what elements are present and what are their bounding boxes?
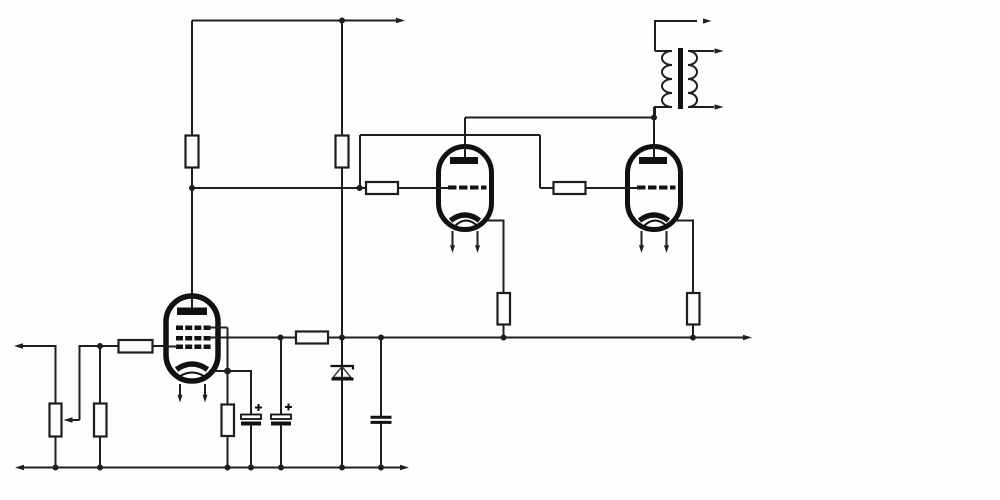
V2 grid stub [436, 187, 449, 189]
node: ground grid-leak junction [97, 465, 103, 471]
wire: R6 to bus [692, 323, 694, 338]
pentode V1 [163, 296, 228, 403]
V3 grid dashes [637, 186, 676, 190]
V3 grid stub [625, 187, 638, 189]
node: bus R6 junction [690, 335, 696, 341]
V2 grid dashes [448, 186, 487, 190]
resistor R10 grid stopper [119, 340, 153, 353]
wire: cathode V3 to R6 [670, 221, 693, 297]
V1 plate bar [177, 308, 207, 316]
T1 secondary lead bottom [688, 106, 714, 108]
wire: C3 riser to bus [380, 338, 382, 417]
wire: pot wiper riser to grid net [80, 346, 121, 420]
node: V1 screen-cathode junction [224, 368, 231, 375]
node: ground zener junction [339, 465, 345, 471]
resistor R2 [336, 136, 349, 168]
V1 heater arrows [179, 384, 181, 397]
arrow: B+ rail right [396, 18, 405, 23]
node: top rail junction [339, 18, 345, 24]
V3 cathode arc [640, 215, 669, 221]
node: bus zener junction [339, 335, 345, 341]
V2 cathode arc [451, 215, 480, 221]
resistor R5 [498, 293, 511, 325]
wire: grid stopper to V1 [151, 345, 168, 347]
V2 plate lead [464, 146, 466, 161]
V3 plate bar [639, 157, 667, 164]
V1 bus stub [207, 337, 222, 339]
wire: C2 to ground [280, 426, 282, 468]
node: bus C3 junction [378, 335, 384, 341]
T1 secondary lead top [688, 50, 714, 52]
zener diode VD1 [331, 366, 354, 379]
wire: V2 plate riser [464, 118, 466, 151]
resistor R9 grid leak [94, 404, 107, 437]
wire: x342 vertical drop (B+ to ground) [341, 21, 343, 468]
wire: C2 riser to bus [280, 338, 282, 415]
V1 cathode arc [177, 364, 208, 370]
node: ground C3 junction [378, 465, 384, 471]
triode V2 [436, 146, 492, 253]
node: bus C2 junction [278, 335, 284, 341]
node: plate bus junction [651, 115, 657, 121]
V3 heater arc [644, 221, 668, 227]
node: ground C2 junction [278, 465, 284, 471]
wire: C3 to ground [380, 424, 382, 468]
T1 primary lead top [655, 21, 697, 51]
node: bus R5 junction [501, 335, 507, 341]
resistor R8 cathode [222, 405, 235, 437]
capacitor C3 [371, 417, 392, 422]
wire: input lead [21, 346, 56, 405]
potentiometer RP body [50, 404, 62, 437]
V1 control grid dashes [176, 345, 211, 350]
V2 plate bar [450, 157, 478, 164]
wire: feedback bus y337.5 [207, 337, 745, 339]
node: pot wiper junction [97, 343, 103, 349]
wire: V3 plate riser to transformer [653, 107, 655, 150]
resistor R4 [554, 182, 586, 194]
wire: drop to R4 [539, 135, 541, 188]
wire: C1 to ground [250, 426, 252, 468]
wire: B+ top rail [192, 20, 398, 22]
V3 plate lead [653, 146, 655, 161]
wire: cathode V2 to R5 [481, 221, 504, 297]
node: ground C1 junction [248, 465, 254, 471]
wire: grid leak R to ground [99, 435, 101, 468]
arrow: T1 primary top [703, 18, 712, 23]
wire: left B+ drop to V1 plate [191, 21, 193, 299]
V1 heater arc [180, 373, 205, 377]
transformer T1 [655, 21, 714, 118]
arrow: bus right end [743, 335, 752, 340]
wire: plate bus y117.5 [465, 117, 654, 119]
T1 primary winding [655, 51, 672, 118]
V1 screen stub [207, 327, 228, 329]
wire: grid leak R drop [99, 346, 101, 405]
wire: riser from grid-feed junction [359, 135, 361, 188]
resistor R1 [186, 136, 199, 168]
node: ground cathode-R junction [225, 465, 231, 471]
node: R1 bottom junction [189, 185, 195, 191]
triode V3 [625, 146, 681, 253]
capacitor C1 electrolytic [241, 404, 262, 426]
arrow: ground line right end [400, 465, 409, 470]
capacitor C2 electrolytic [271, 404, 292, 426]
V1 screen grid dashes [176, 326, 211, 331]
resistor R6 [687, 293, 700, 325]
wire: y188 horizontal from R1 bottom [192, 187, 442, 189]
resistor R3 [366, 182, 398, 194]
wire: R4 to V3 grid [540, 187, 630, 189]
V3 heater arrows [641, 231, 643, 246]
wire: V1 screen drop to cathode network [227, 328, 229, 407]
node: grid feed junction [357, 185, 363, 191]
potentiometer wiper arrow [64, 417, 80, 422]
wire: bottom ground line [22, 467, 402, 469]
V2 heater arc [455, 221, 479, 227]
wire: y135 horizontal to V3 grid branch [360, 134, 540, 136]
arrow: T1 secondary bottom [715, 104, 724, 109]
wire: V1 cathode lead [204, 371, 251, 415]
node: ground pot junction [53, 465, 59, 471]
resistor R7 [296, 332, 328, 344]
arrow: ground line left end [15, 465, 24, 470]
T1 secondary winding [688, 51, 697, 107]
arrow: T1 secondary top [715, 48, 724, 53]
V1 grid stub [163, 346, 177, 348]
wire: pot bottom to ground [55, 435, 57, 468]
wire: cathode R to ground [227, 434, 229, 468]
V1 suppressor dashes [176, 336, 211, 341]
V1 plate lead [191, 296, 193, 311]
T1 core bar [678, 48, 683, 109]
arrow: input left [14, 343, 23, 348]
wire: R5 to bus [503, 323, 505, 338]
V2 heater arrows [452, 231, 454, 246]
